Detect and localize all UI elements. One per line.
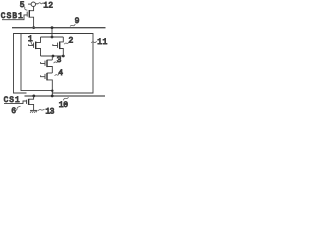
terminal 12 circle bbox=[31, 2, 35, 6]
pair bottom wire bbox=[41, 55, 64, 57]
substrate wire L from box top to Q4 source bbox=[21, 34, 52, 91]
svg-text:3: 3 bbox=[57, 56, 62, 65]
transistor Q5 gate bar bbox=[26, 12, 28, 17]
transistor Q3 source wire down bbox=[47, 67, 52, 74]
junction dot on rail 9 bbox=[51, 26, 54, 29]
transistor Q3 gate bar bbox=[44, 61, 46, 66]
transistor Q6 channel bar bbox=[28, 99, 30, 105]
leader squiggle for 13 bbox=[38, 109, 44, 111]
transistor Q2 gate lead with hook bbox=[53, 44, 58, 45]
cell box 11 (bottom edge has gap) bbox=[14, 34, 94, 94]
wire rail 9 down to pair node bbox=[51, 28, 53, 37]
svg-text:5: 5 bbox=[20, 1, 25, 10]
wire CSB1 to gate of transistor 5 bbox=[2, 15, 27, 20]
junction dot Q5 source on rail 9 bbox=[32, 26, 35, 29]
transistor Q3 gate lead with hook bbox=[41, 62, 45, 63]
svg-text:1: 1 bbox=[103, 38, 108, 47]
svg-text:4: 4 bbox=[58, 69, 63, 78]
leader squiggle for 12 bbox=[38, 3, 43, 4]
transistor Q4 gate lead with hook bbox=[41, 75, 45, 76]
pair top wire bbox=[41, 36, 64, 38]
transistor Q1 source wire down bbox=[36, 49, 41, 57]
junction dot Q6 drain on rail 10 bbox=[32, 95, 35, 98]
leader squiggle for 9 bbox=[70, 24, 75, 26]
node rail 10 bbox=[25, 95, 106, 97]
svg-text:2: 2 bbox=[69, 37, 74, 46]
wire CS1 to gate of transistor 6 bbox=[4, 101, 26, 104]
ground 13 bar bbox=[30, 109, 37, 111]
transistor Q4 gate bar bbox=[44, 74, 46, 79]
transistor Q2 drain wire up bbox=[60, 37, 63, 42]
svg-text:9: 9 bbox=[75, 17, 80, 26]
transistor Q1 channel bar bbox=[35, 42, 37, 50]
svg-text:2: 2 bbox=[48, 2, 53, 11]
transistor Q6 drain wire from rail 10 bbox=[29, 96, 34, 99]
leader squiggle for 6 bbox=[15, 106, 20, 110]
transistor Q2 channel bar bbox=[59, 42, 61, 50]
transistor Q3 channel bar bbox=[46, 60, 48, 67]
ground hatch 2 bbox=[32, 111, 34, 113]
transistor Q5 channel bar bbox=[28, 10, 30, 18]
transistor Q2 gate bar bbox=[57, 43, 59, 48]
leader squiggle for 3 bbox=[54, 61, 59, 63]
junction dot Q4 source on rail 10 bbox=[51, 95, 54, 98]
wire pair node down to Q3 bbox=[51, 56, 53, 60]
node rail 9 bbox=[12, 27, 106, 29]
svg-text:3: 3 bbox=[50, 108, 55, 117]
junction dot pair bottom center bbox=[52, 55, 55, 58]
transistor Q1 gate bar bbox=[33, 43, 35, 48]
leader squiggle for 10 bbox=[63, 97, 68, 100]
transistor Q4 drain lead bbox=[47, 72, 52, 74]
transistor Q1 gate lead with hook bbox=[29, 44, 34, 45]
wire tick left of terminal bbox=[28, 3, 31, 5]
wire tick right of terminal bbox=[36, 3, 39, 5]
leader squiggle for 1 bbox=[30, 42, 34, 45]
leader squiggle for 4 bbox=[55, 73, 60, 75]
transistor Q4 source wire down to rail 10 bbox=[47, 80, 52, 96]
leader squiggle for 11 bbox=[91, 41, 96, 43]
transistor Q5 drain wire from terminal bbox=[30, 6, 34, 10]
transistor Q2 source wire down bbox=[60, 49, 63, 57]
svg-text:1: 1 bbox=[28, 35, 33, 44]
transistor Q3 drain lead bbox=[47, 59, 52, 61]
svg-text:6: 6 bbox=[11, 107, 16, 116]
transistor Q6 source wire down bbox=[29, 104, 34, 110]
junction dot wire meets Q4 source bbox=[51, 90, 53, 92]
junction dot on pair top wire bbox=[51, 36, 54, 39]
ground hatch 4 bbox=[36, 111, 37, 113]
transistor Q4 channel bar bbox=[46, 73, 48, 81]
transistor Q6 gate bar bbox=[26, 100, 28, 104]
ground hatch 1 bbox=[30, 111, 32, 113]
junction dot pair bottom right bbox=[62, 55, 65, 58]
svg-text:0: 0 bbox=[63, 101, 68, 110]
transistor Q5 source wire to rail 9 bbox=[30, 17, 34, 28]
leader squiggle for 2 bbox=[64, 42, 69, 44]
leader squiggle for 5 bbox=[23, 7, 27, 11]
ground hatch 3 bbox=[34, 111, 36, 113]
transistor Q1 drain wire up bbox=[36, 37, 41, 42]
